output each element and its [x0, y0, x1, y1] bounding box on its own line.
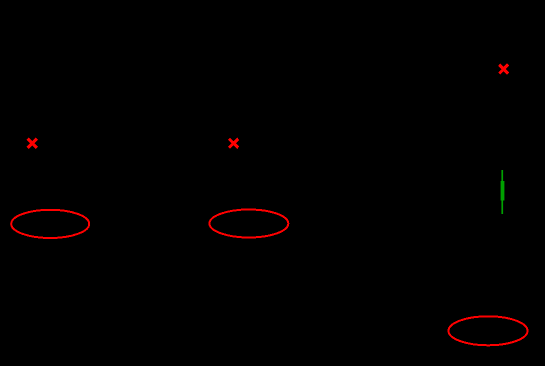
- output LED D1 (hidden black-on-black schematic element): [476, 319, 500, 343]
- wire W1 thin lower segment: [501, 201, 503, 215]
- annotation: red X mark over input node A: [28, 139, 37, 148]
- annotation: red ellipse around gate G2: [210, 210, 289, 238]
- wire from node C down to active wire (hidden): [501, 74, 503, 170]
- annotation: red ellipse around output LED D1: [449, 316, 528, 345]
- annotation: red ellipse around gate G1: [11, 210, 89, 238]
- wire W1 (active, logic 1, green) thin upper segment: [501, 170, 503, 182]
- gate G1 (hidden black-on-black schematic element): [35, 210, 64, 238]
- annotation: red X mark over node C: [499, 65, 508, 74]
- annotation: red X mark over input node B: [229, 139, 238, 148]
- wire from input node B down to gate G2 (hidden): [232, 148, 234, 210]
- wire W1 active segment (wide green bar): [501, 181, 505, 201]
- wire from input node A down to gate G1 (hidden): [31, 148, 33, 210]
- gate G2 (hidden black-on-black schematic element): [234, 210, 263, 238]
